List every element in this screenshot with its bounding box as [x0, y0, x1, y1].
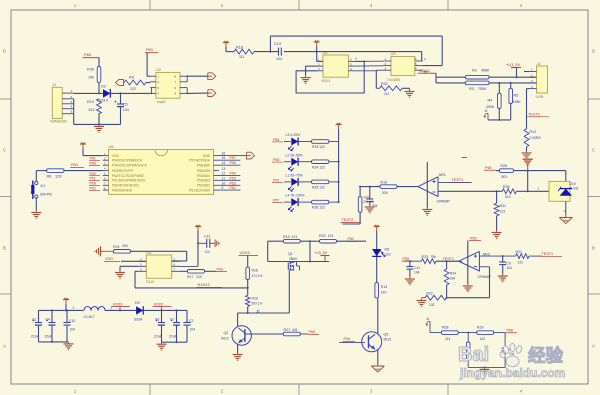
svg-text:9013: 9013 — [384, 338, 392, 342]
svg-text:C5: C5 — [123, 102, 128, 106]
svg-text:B: B — [592, 246, 595, 252]
svg-text:1: 1 — [73, 306, 75, 310]
svg-text:132: 132 — [429, 303, 435, 307]
svg-text:R35: R35 — [503, 185, 510, 189]
svg-text:P52/AD2: P52/AD2 — [197, 184, 210, 188]
svg-text:r4: r4 — [564, 209, 567, 213]
svg-text:D2: D2 — [101, 85, 106, 89]
svg-text:P56: P56 — [230, 161, 236, 165]
svg-text:22uF: 22uF — [169, 335, 177, 339]
svg-text:U3: U3 — [146, 250, 152, 255]
svg-text:U5: U5 — [391, 51, 397, 56]
svg-text:AR1: AR1 — [439, 173, 446, 177]
svg-text:C: C — [592, 148, 596, 154]
svg-text:+U3_5V: +U3_5V — [506, 62, 521, 67]
svg-text:R20: R20 — [319, 234, 326, 238]
svg-text:Q3: Q3 — [384, 332, 389, 336]
svg-text:10: 10 — [222, 181, 226, 185]
svg-text:111: 111 — [239, 55, 244, 59]
svg-text:K511: K511 — [322, 78, 331, 83]
svg-text:458K: 458K — [481, 69, 490, 73]
svg-text:R36 122: R36 122 — [312, 206, 325, 210]
svg-text:P51/SCK/AD9: P51/SCK/AD9 — [189, 189, 210, 193]
svg-text:474: 474 — [292, 235, 298, 239]
svg-text:L3 0-25%: L3 0-25% — [286, 133, 301, 137]
svg-text:22uF: 22uF — [45, 335, 53, 339]
svg-text:P62: P62 — [90, 172, 96, 176]
svg-text:P64: P64 — [217, 267, 223, 271]
svg-text:123: 123 — [55, 175, 61, 179]
svg-text:12: 12 — [222, 171, 226, 175]
svg-text:104: 104 — [190, 328, 196, 332]
svg-text:104: 104 — [509, 352, 515, 356]
svg-text:122: 122 — [130, 87, 136, 91]
svg-text:P57: P57 — [273, 199, 279, 203]
svg-text:104: 104 — [123, 108, 129, 112]
svg-text:112: 112 — [384, 92, 390, 96]
svg-text:J5: J5 — [484, 109, 488, 113]
svg-text:R23: R23 — [422, 255, 428, 259]
svg-text:R3: R3 — [469, 87, 474, 91]
svg-text:L2 25~50%: L2 25~50% — [286, 153, 303, 157]
svg-text:P53: P53 — [230, 176, 236, 180]
svg-text:123: 123 — [196, 275, 202, 279]
svg-text:9013: 9013 — [221, 337, 229, 341]
svg-text:C11: C11 — [414, 266, 420, 270]
svg-text:P57/AD7/SDA: P57/AD7/SDA — [189, 159, 211, 163]
svg-text:R28: R28 — [442, 326, 448, 330]
svg-text:R36: R36 — [87, 67, 94, 71]
svg-text:J4: J4 — [426, 317, 430, 321]
svg-text:VDD3: VDD3 — [113, 302, 123, 306]
svg-text:R15: R15 — [113, 245, 119, 249]
svg-text:R33 122: R33 122 — [312, 145, 325, 149]
svg-text:R16: R16 — [236, 46, 243, 50]
svg-text:P64/OSC/PWM2/CS: P64/OSC/PWM2/CS — [112, 159, 143, 163]
svg-text:C2: C2 — [189, 319, 193, 323]
svg-text:VDD: VDD — [105, 257, 113, 261]
svg-text:P62/TCC/SCK/PWM2: P62/TCC/SCK/PWM2 — [112, 174, 144, 178]
svg-text:104: 104 — [276, 57, 282, 61]
svg-text:Q1: Q1 — [288, 252, 293, 256]
svg-text:R29: R29 — [477, 326, 483, 330]
svg-text:122: 122 — [480, 337, 486, 341]
svg-text:Q2: Q2 — [224, 331, 229, 335]
svg-text:SS34: SS34 — [134, 318, 142, 322]
svg-text:P57: P57 — [230, 156, 236, 160]
svg-text:801: 801 — [502, 175, 508, 179]
svg-text:LED: LED — [385, 252, 392, 256]
svg-text:104: 104 — [507, 266, 513, 270]
svg-text:P63: P63 — [71, 163, 78, 167]
svg-text:TL431: TL431 — [569, 187, 579, 191]
svg-text:593 1%: 593 1% — [252, 302, 263, 306]
svg-text:L5 4K7: L5 4K7 — [84, 315, 95, 319]
svg-text:TEST2: TEST2 — [342, 218, 354, 222]
svg-text:R19: R19 — [381, 180, 388, 184]
svg-text:104: 104 — [70, 328, 76, 332]
svg-text:P65: P65 — [470, 236, 477, 240]
svg-text:R9: R9 — [129, 76, 134, 80]
svg-text:P55: P55 — [273, 158, 279, 162]
svg-text:P60: P60 — [309, 330, 315, 334]
svg-text:P61/ADO/PWM1/DIO2: P61/ADO/PWM1/DIO2 — [112, 179, 146, 183]
svg-text:334: 334 — [450, 277, 456, 281]
svg-text:P61: P61 — [146, 47, 154, 52]
svg-text:C4: C4 — [46, 318, 50, 322]
svg-text:15k: 15k — [88, 76, 94, 80]
svg-text:P54: P54 — [230, 171, 236, 175]
svg-text:TEST2: TEST2 — [528, 113, 540, 117]
svg-text:P52: P52 — [230, 181, 236, 185]
svg-text:P51: P51 — [230, 186, 236, 190]
svg-text:R13: R13 — [381, 285, 387, 289]
svg-text:D: D — [592, 49, 596, 55]
svg-text:U2: U2 — [156, 67, 162, 72]
svg-text:P56/AD6: P56/AD6 — [197, 164, 210, 168]
svg-text:B: B — [3, 246, 6, 252]
svg-text:C13: C13 — [274, 42, 281, 46]
svg-text:114: 114 — [205, 250, 210, 254]
svg-text:C9: C9 — [507, 262, 511, 266]
svg-text:P55: P55 — [403, 257, 410, 261]
svg-text:MINIUSB: MINIUSB — [51, 119, 68, 124]
svg-text:499K: 499K — [513, 100, 522, 104]
svg-text:P52: P52 — [273, 178, 279, 182]
svg-text:C12: C12 — [204, 234, 210, 238]
svg-text:Bai: Bai — [458, 344, 489, 366]
svg-text:11: 11 — [222, 176, 226, 180]
svg-text:S12I: S12I — [146, 279, 154, 284]
svg-text:C7: C7 — [170, 318, 174, 322]
svg-text:R2: R2 — [472, 69, 477, 73]
svg-text:R6: R6 — [47, 175, 52, 179]
svg-text:14: 14 — [222, 161, 226, 165]
svg-text:174 1%: 174 1% — [252, 274, 263, 278]
svg-text:K1: K1 — [41, 184, 46, 188]
svg-text:R12: R12 — [530, 130, 537, 134]
svg-text:P60: P60 — [84, 52, 92, 57]
svg-text:TEST1: TEST1 — [443, 257, 454, 261]
svg-text:P65/SDI/AD8: P65/SDI/AD8 — [112, 189, 132, 193]
svg-text:9: 9 — [222, 186, 224, 190]
svg-text:L4 75~100%: L4 75~100% — [286, 194, 305, 198]
svg-text:VDD2: VDD2 — [240, 250, 250, 255]
svg-text:TEST1: TEST1 — [452, 178, 464, 182]
svg-text:VDD2: VDD2 — [154, 302, 164, 306]
svg-text:R27: R27 — [284, 328, 291, 332]
svg-text:P63/RST/VPP: P63/RST/VPP — [112, 169, 134, 173]
svg-text:79k: 79k — [431, 255, 437, 259]
svg-text:P61: P61 — [90, 157, 96, 161]
svg-text:D6: D6 — [385, 248, 390, 252]
svg-text:+U3_5V: +U3_5V — [314, 251, 328, 255]
svg-text:D10: D10 — [569, 182, 575, 186]
svg-text:SW-PB: SW-PB — [40, 193, 52, 197]
svg-text:122: 122 — [518, 261, 524, 265]
svg-text:123: 123 — [500, 209, 506, 213]
svg-text:USB: USB — [536, 94, 544, 99]
svg-text:R26: R26 — [501, 164, 507, 168]
svg-text:P44/OSCO/PWM1/SCK: P44/OSCO/PWM1/SCK — [112, 164, 148, 168]
svg-text:P58: P58 — [507, 329, 513, 333]
svg-text:123: 123 — [328, 234, 334, 238]
svg-text:P56: P56 — [273, 138, 279, 142]
svg-text:309: 309 — [122, 244, 128, 248]
svg-text:RXD12: RXD12 — [198, 283, 210, 287]
svg-text:22uF: 22uF — [31, 335, 39, 339]
svg-text:441: 441 — [292, 328, 298, 332]
svg-text:R17: R17 — [187, 275, 193, 279]
svg-text:R34: R34 — [450, 271, 456, 275]
svg-text:R21: R21 — [516, 250, 522, 254]
svg-text:P51: P51 — [90, 177, 96, 181]
svg-text:512: 512 — [89, 108, 95, 112]
svg-text:R32: R32 — [381, 82, 388, 86]
svg-text:TEST3: TEST3 — [542, 252, 553, 256]
svg-text:R18: R18 — [252, 269, 258, 273]
svg-text:104: 104 — [414, 270, 420, 274]
svg-text:sop8: sop8 — [157, 99, 165, 104]
svg-text:R22: R22 — [427, 292, 433, 296]
svg-text:334: 334 — [382, 191, 388, 195]
svg-text:16: 16 — [222, 152, 226, 156]
svg-text:R4: R4 — [488, 99, 493, 103]
svg-text:A: A — [424, 57, 426, 61]
svg-text:P66: P66 — [90, 162, 96, 166]
svg-text:P60: P60 — [90, 182, 96, 186]
svg-text:U6: U6 — [109, 144, 115, 149]
svg-text:L1 50~75%: L1 50~75% — [286, 174, 303, 178]
svg-text:GND: GND — [203, 154, 211, 158]
svg-text:经验: 经验 — [528, 346, 563, 366]
svg-text:750K: 750K — [478, 87, 487, 91]
svg-text:VDD2: VDD2 — [419, 68, 430, 73]
svg-text:R31: R31 — [500, 204, 506, 208]
svg-text:R34 122: R34 122 — [312, 165, 325, 169]
svg-text:2N60: 2N60 — [289, 257, 297, 261]
svg-text:R10: R10 — [87, 100, 94, 104]
svg-text:22uF: 22uF — [154, 335, 162, 339]
svg-text:C1: C1 — [32, 318, 36, 322]
svg-text:74103B: 74103B — [387, 77, 401, 82]
svg-text:P52: P52 — [90, 187, 96, 191]
svg-text:P53/AD3: P53/AD3 — [197, 179, 210, 183]
svg-text:15: 15 — [222, 156, 226, 160]
svg-text:13: 13 — [222, 167, 226, 171]
svg-text:C: C — [3, 148, 7, 154]
svg-text:C6: C6 — [155, 318, 159, 322]
svg-text:D: D — [3, 49, 7, 55]
svg-text:P54/AD4: P54/AD4 — [197, 174, 210, 178]
svg-text:R16: R16 — [252, 296, 258, 300]
svg-text:VDD: VDD — [112, 154, 120, 158]
svg-text:R35 122: R35 122 — [312, 186, 325, 190]
svg-text:P62: P62 — [348, 237, 355, 241]
svg-text:P54: P54 — [344, 337, 351, 341]
svg-text:OPAMP: OPAMP — [437, 199, 451, 203]
svg-text:114: 114 — [445, 337, 451, 341]
svg-text:U4: U4 — [323, 50, 329, 55]
svg-text:P65: P65 — [485, 166, 492, 170]
svg-text:D9: D9 — [135, 301, 140, 305]
svg-text:140: 140 — [381, 290, 387, 294]
svg-text:R19: R19 — [283, 235, 290, 239]
svg-text:0.05R/2: 0.05R/2 — [530, 136, 541, 140]
svg-text:C10: C10 — [69, 319, 75, 323]
svg-text:jingyan.baidu.com: jingyan.baidu.com — [459, 366, 565, 380]
svg-text:P55/AD5: P55/AD5 — [197, 169, 210, 173]
svg-text:912: 912 — [505, 195, 511, 199]
svg-text:R5: R5 — [514, 94, 519, 98]
svg-text:P60/INT/SDI/DIO1: P60/INT/SDI/DIO1 — [112, 184, 139, 188]
